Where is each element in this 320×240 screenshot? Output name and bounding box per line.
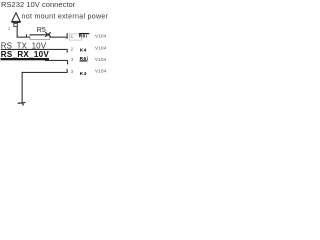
connector pin 1 box: [69, 34, 81, 40]
svg-text:V104: V104: [95, 57, 107, 62]
connector pin 1 tick: [67, 33, 68, 39]
connector pin 4 tick: [67, 69, 68, 73]
connector pin 2 tick: [67, 49, 68, 53]
wire row 4 horizontal: [22, 72, 68, 73]
resistor R5: [30, 34, 50, 39]
not-mounted cross X: [45, 32, 51, 37]
wire row 3 (RS_RX_10V): [45, 60, 68, 61]
power flag symbol (external power, triangle): [12, 13, 21, 27]
wire end nub: [22, 104, 24, 106]
wire row 1 horizontal: [17, 37, 68, 38]
wire end tick at bottom: [18, 102, 26, 104]
pin 3 name underline bar: [80, 60, 88, 61]
svg-text:RS_RX_10V: RS_RX_10V: [1, 50, 50, 59]
svg-text:RS232 10V connector: RS232 10V connector: [1, 0, 76, 9]
wire down-left vertical: [22, 72, 23, 104]
thick underline of RS_RX_10V: [1, 58, 50, 60]
svg-text:V104: V104: [95, 69, 107, 74]
svg-text:not mount external power: not mount external power: [22, 12, 109, 20]
svg-text:V104: V104: [95, 33, 107, 38]
pin 1 name bar: [79, 33, 89, 34]
svg-text:K4: K4: [80, 71, 87, 76]
svg-text:V104: V104: [95, 45, 107, 50]
pin tick at resistor input: [26, 34, 27, 37]
wire from power flag down: [17, 27, 18, 38]
connector pin 3 tick: [67, 60, 68, 64]
svg-text:R5: R5: [37, 27, 46, 34]
svg-text:R6i: R6i: [79, 34, 88, 39]
wire row 2 (RS_TX_10V): [1, 49, 67, 50]
svg-text:K4: K4: [80, 48, 87, 53]
